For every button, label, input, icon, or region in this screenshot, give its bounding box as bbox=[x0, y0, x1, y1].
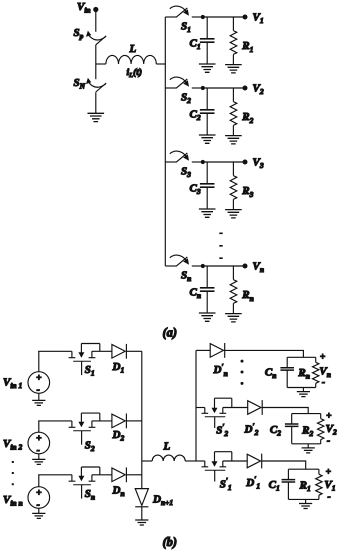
svg-text:-: - bbox=[327, 437, 330, 447]
node junction bbox=[201, 15, 205, 19]
diode Dn+1 bbox=[135, 489, 148, 520]
node V3 bbox=[243, 160, 248, 165]
svg-text:S2: S2 bbox=[181, 91, 191, 105]
svg-text:iL(t): iL(t) bbox=[127, 67, 143, 79]
svg-text:Vin 1: Vin 1 bbox=[3, 377, 22, 391]
ground bbox=[225, 65, 242, 73]
ground bbox=[199, 313, 216, 321]
diode D2 bbox=[112, 414, 127, 429]
svg-text:Dn: Dn bbox=[112, 485, 125, 499]
wire bbox=[196, 460, 205, 462]
diode D'2 bbox=[248, 400, 263, 415]
wire bbox=[287, 357, 316, 391]
switch Sp bbox=[86, 31, 106, 45]
wire bbox=[201, 16, 245, 18]
svg-text:Vin: Vin bbox=[77, 1, 91, 15]
svg-text:D′n: D′n bbox=[213, 362, 228, 378]
svg-text:V2: V2 bbox=[326, 423, 337, 437]
svg-text:S′2: S′2 bbox=[216, 422, 228, 438]
transistor S'1 bbox=[202, 452, 232, 482]
wire bbox=[225, 350, 304, 357]
wire bbox=[262, 408, 308, 414]
svg-text:R2: R2 bbox=[241, 111, 253, 125]
ellipsis bbox=[219, 233, 222, 258]
svg-text:Vin n: Vin n bbox=[3, 494, 23, 508]
wire bbox=[262, 461, 306, 469]
wire bbox=[223, 407, 248, 409]
svg-text:C2: C2 bbox=[270, 424, 281, 438]
svg-text:Vin 2: Vin 2 bbox=[3, 438, 22, 452]
capacitor Cn bbox=[200, 266, 215, 313]
capacitor C1 bbox=[200, 17, 215, 64]
node Vin bbox=[93, 7, 98, 12]
node junction bbox=[201, 86, 205, 90]
svg-text:D′1: D′1 bbox=[245, 475, 260, 491]
svg-text:Cn: Cn bbox=[190, 287, 202, 301]
bus wire bbox=[164, 17, 166, 266]
ground bbox=[297, 392, 310, 397]
ground bbox=[88, 113, 105, 121]
switch S2 bbox=[165, 77, 201, 88]
resistor R1 bbox=[230, 17, 237, 64]
svg-text:Sp: Sp bbox=[74, 27, 84, 41]
wire bbox=[95, 45, 97, 79]
resistor R1 bbox=[316, 469, 322, 499]
svg-text:Cn: Cn bbox=[265, 367, 277, 381]
diode D'n bbox=[210, 343, 225, 358]
ground bbox=[135, 520, 148, 525]
svg-text:SN: SN bbox=[74, 77, 86, 91]
svg-text:Sn: Sn bbox=[181, 269, 191, 283]
svg-text:Sn: Sn bbox=[85, 488, 95, 502]
svg-text:+: + bbox=[36, 374, 41, 384]
inductor L bbox=[142, 455, 196, 461]
node bus bbox=[141, 351, 143, 488]
svg-text:D2: D2 bbox=[112, 429, 125, 443]
capacitor C1 bbox=[282, 469, 296, 499]
svg-text:V3: V3 bbox=[253, 156, 264, 170]
svg-text:+: + bbox=[326, 468, 331, 478]
wire bbox=[201, 161, 245, 163]
ground bbox=[225, 136, 242, 144]
svg-text:+: + bbox=[36, 434, 41, 444]
svg-text:S′1: S′1 bbox=[220, 476, 232, 492]
ground bbox=[199, 135, 216, 143]
svg-text:R1: R1 bbox=[241, 40, 253, 54]
svg-text:R3: R3 bbox=[241, 185, 253, 199]
ground bbox=[32, 513, 45, 518]
switch S3 bbox=[165, 151, 201, 162]
wire bbox=[292, 414, 321, 448]
wire bbox=[196, 407, 205, 409]
diode Dn bbox=[112, 467, 127, 482]
diode D'1 bbox=[247, 454, 262, 469]
wire bbox=[196, 349, 210, 351]
node Vn bbox=[243, 264, 248, 269]
switch S1 bbox=[165, 6, 201, 17]
wire bbox=[95, 12, 97, 32]
switch Sn bbox=[165, 255, 201, 266]
wire bbox=[223, 460, 247, 462]
svg-text:+: + bbox=[36, 489, 41, 499]
svg-text:R1: R1 bbox=[299, 480, 311, 494]
capacitor C2 bbox=[285, 414, 299, 444]
resistor R3 bbox=[230, 162, 237, 209]
ground bbox=[32, 400, 45, 405]
wire bbox=[95, 92, 97, 113]
wire bbox=[201, 87, 245, 89]
svg-text:Rn: Rn bbox=[241, 289, 254, 303]
wire bbox=[38, 350, 72, 352]
transistor Sn bbox=[69, 467, 100, 499]
svg-text:Vn: Vn bbox=[319, 365, 331, 379]
capacitor C2 bbox=[200, 88, 215, 135]
svg-text:Dn+1: Dn+1 bbox=[152, 494, 173, 508]
svg-text:V2: V2 bbox=[253, 82, 264, 96]
ground bbox=[225, 210, 242, 218]
svg-text:L: L bbox=[163, 441, 171, 453]
svg-text:D1: D1 bbox=[112, 361, 125, 375]
switch SN bbox=[86, 78, 106, 92]
node V1 bbox=[243, 15, 248, 20]
svg-text:S1: S1 bbox=[181, 20, 191, 34]
node bus2 bbox=[195, 350, 197, 461]
voltage source Vin1 bbox=[28, 351, 50, 400]
node junction bbox=[201, 264, 205, 268]
svg-text:(b): (b) bbox=[163, 535, 178, 549]
resistor R2 bbox=[318, 414, 324, 444]
capacitor Cn bbox=[280, 357, 294, 387]
diode D1 bbox=[112, 344, 127, 359]
svg-text:-: - bbox=[322, 378, 325, 388]
wire bbox=[288, 469, 319, 503]
ground bbox=[302, 448, 315, 453]
ellipsis bbox=[12, 462, 14, 484]
wire bbox=[38, 420, 72, 422]
ellipsis bbox=[241, 360, 244, 363]
ground bbox=[199, 64, 216, 72]
wire bbox=[92, 474, 112, 476]
svg-text:D′2: D′2 bbox=[244, 421, 259, 437]
svg-text:+: + bbox=[320, 353, 325, 363]
voltage source Vinn bbox=[28, 475, 50, 514]
wire bbox=[126, 350, 141, 352]
svg-text:C3: C3 bbox=[190, 183, 201, 197]
ground bbox=[32, 459, 45, 464]
wire bbox=[92, 350, 112, 352]
svg-text:C1: C1 bbox=[190, 38, 201, 52]
svg-text:C1: C1 bbox=[269, 479, 280, 493]
svg-text:Vn: Vn bbox=[253, 260, 265, 274]
svg-text:+: + bbox=[326, 412, 331, 422]
resistor R2 bbox=[230, 88, 237, 135]
svg-text:R2: R2 bbox=[301, 424, 313, 438]
wire bbox=[126, 474, 141, 476]
transistor S2 bbox=[69, 413, 100, 445]
ground bbox=[199, 209, 216, 217]
capacitor C3 bbox=[200, 162, 215, 209]
svg-text:L: L bbox=[129, 43, 137, 55]
resistor Rn bbox=[313, 357, 319, 387]
ground bbox=[225, 314, 242, 322]
svg-text:S2: S2 bbox=[85, 439, 95, 453]
transistor S1 bbox=[69, 344, 100, 376]
svg-text:S3: S3 bbox=[181, 165, 191, 179]
svg-text:S1: S1 bbox=[85, 364, 95, 378]
svg-text:Rn: Rn bbox=[297, 367, 310, 381]
wire bbox=[92, 420, 112, 422]
svg-text:(a): (a) bbox=[163, 326, 178, 340]
svg-text:V1: V1 bbox=[253, 11, 264, 25]
transistor S'2 bbox=[202, 398, 232, 428]
ground bbox=[299, 504, 312, 509]
wire bbox=[126, 420, 141, 422]
node V2 bbox=[243, 86, 248, 91]
svg-text:V1: V1 bbox=[324, 479, 335, 493]
svg-text:-: - bbox=[328, 493, 331, 503]
inductor L bbox=[96, 55, 166, 64]
node junction bbox=[201, 160, 205, 164]
wire bbox=[201, 265, 245, 267]
wire bbox=[38, 474, 72, 476]
svg-text:C2: C2 bbox=[190, 109, 201, 123]
resistor Rn bbox=[230, 266, 237, 313]
voltage source Vin2 bbox=[28, 421, 50, 460]
